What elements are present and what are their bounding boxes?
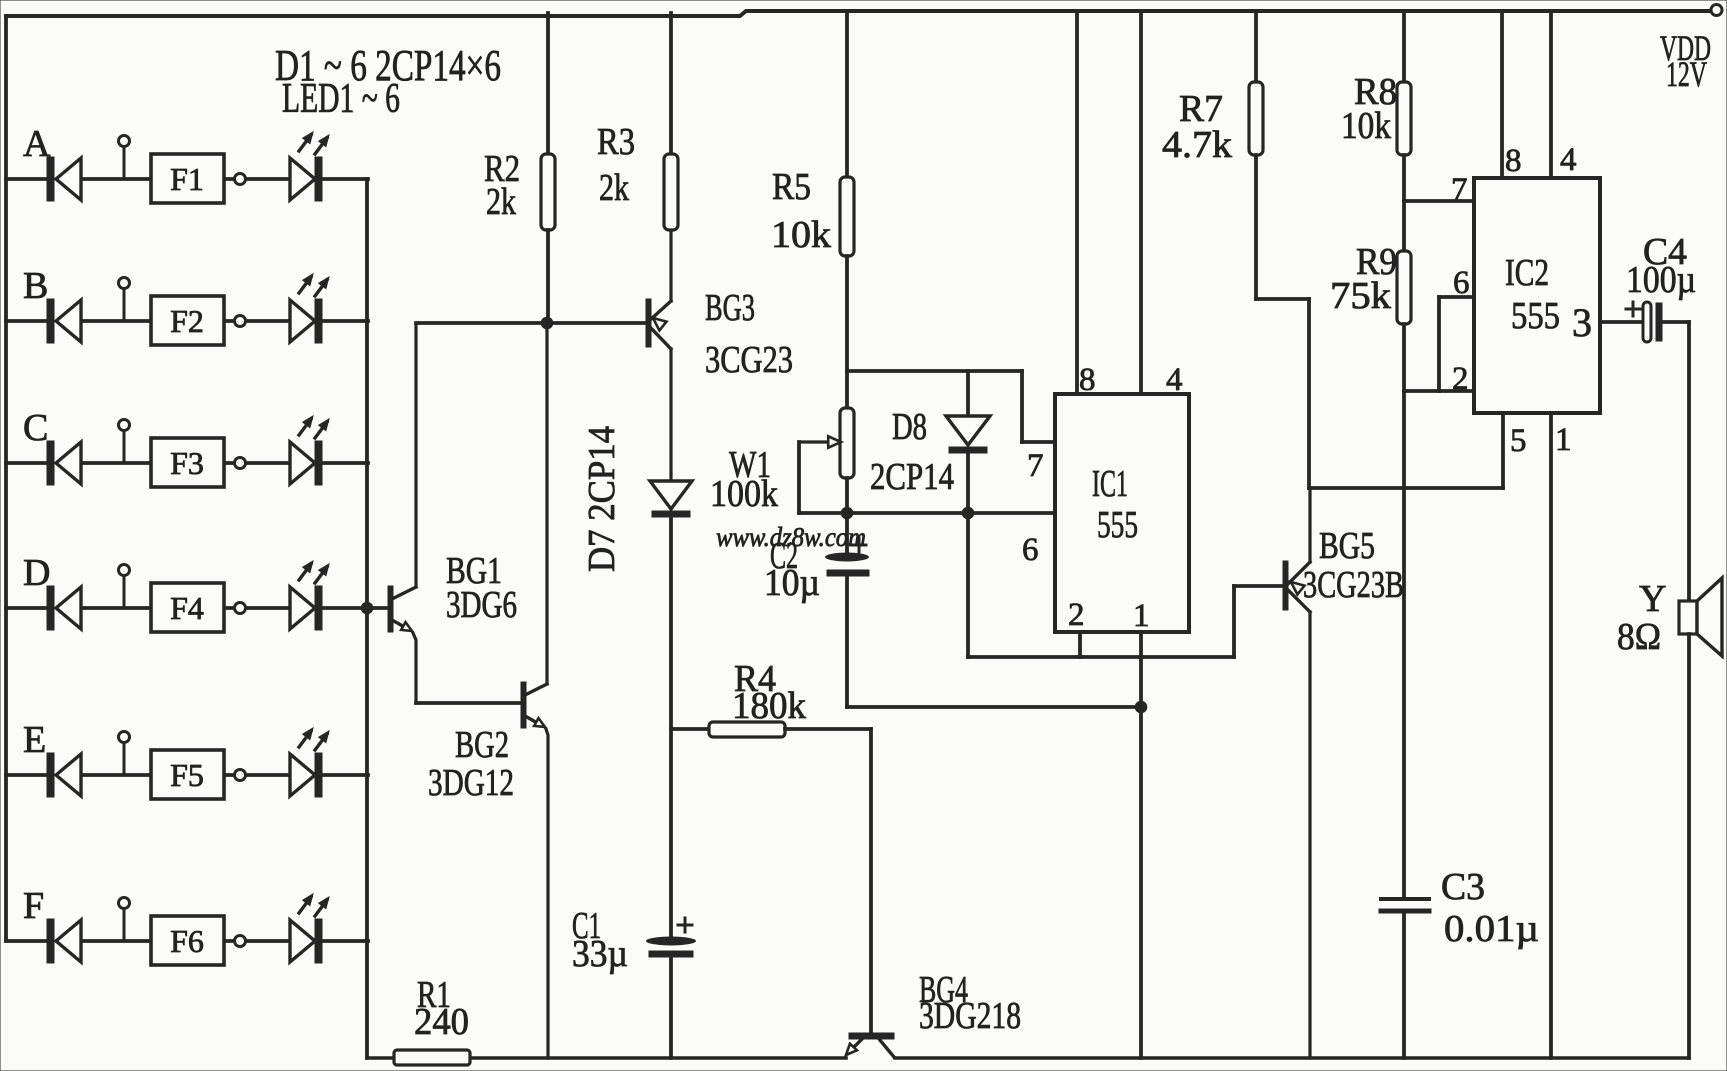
svg-text:3CG23B: 3CG23B (1303, 564, 1404, 606)
node B (row label) (23, 265, 48, 307)
svg-text:6: 6 (1022, 532, 1039, 568)
node E (row label) (23, 719, 46, 761)
svg-text:C: C (23, 407, 48, 449)
diode D8 (2CP14) (946, 371, 990, 513)
svg-text:BG3: BG3 (705, 287, 755, 329)
resistor R2 (2k) (541, 13, 555, 323)
svg-text:B: B (23, 265, 48, 307)
transistor BG2 (3DG12, NPN) (521, 323, 548, 1058)
svg-text:7: 7 (1451, 172, 1468, 208)
box F6 (sensor unit) (151, 916, 224, 965)
input terminal row E (119, 732, 130, 776)
speaker Y (8 ohm) (1679, 578, 1722, 1058)
wire: LED output bus (vertical, collects rows A-F) (365, 179, 369, 1058)
LED5 row E (290, 728, 329, 797)
svg-text:D: D (23, 552, 50, 594)
wire: modulation line to IC2 pin 5 (1309, 413, 1503, 488)
LED6 row F (290, 894, 329, 963)
svg-text:1: 1 (1133, 598, 1150, 634)
LED1 row A (290, 132, 329, 201)
node F (row label) (23, 885, 44, 927)
junction: D8 cathode node (962, 507, 974, 519)
diode D6 (2CP14) row F (47, 919, 81, 963)
box F3 (sensor unit) (151, 438, 224, 487)
op-amp/timer IC1 (555) body (1055, 394, 1189, 632)
svg-text:75k: 75k (1330, 275, 1391, 317)
wire row F (6, 939, 368, 943)
label R7 4.7k (1162, 88, 1232, 166)
transistor BG3 (3CG23, PNP) (646, 230, 671, 481)
wire: IC2 pin 3 output (1600, 320, 1643, 324)
label C1 33µ (572, 905, 628, 975)
pin label 5 (IC2) (1510, 423, 1527, 459)
wire: bottom rail (right section) (895, 1056, 1689, 1060)
label: LED1~6 (282, 76, 400, 122)
resistor R9 (75k) (1397, 251, 1411, 898)
node: VDD terminal circle (top right) (1711, 5, 1722, 16)
wire: W1 wiper / C2 / D8 cathode to IC1 pin 6 (799, 511, 1055, 515)
label: D1~6 2CP14×6 (275, 41, 501, 90)
svg-text:2k: 2k (599, 167, 629, 209)
svg-text:E: E (23, 719, 46, 761)
pin label 3 (IC2) (1572, 300, 1592, 345)
svg-text:4: 4 (1166, 362, 1183, 398)
input terminal row B (119, 278, 130, 322)
label BG4 3DG218 (919, 969, 1021, 1037)
pin label 2 (IC2) (1452, 361, 1469, 397)
svg-text:www.dz8w.com: www.dz8w.com (716, 522, 866, 552)
svg-text:6: 6 (1453, 265, 1470, 301)
svg-text:4: 4 (1560, 142, 1577, 178)
resistor R4 (180k) (709, 722, 785, 737)
capacitor C2 (10µ, electrolytic) (825, 538, 1141, 707)
diode D5 (2CP14) row E (47, 753, 81, 797)
svg-text:F2: F2 (170, 303, 204, 339)
wire: R5/W1 node to D8 anode and IC1 pin 7 (847, 371, 1055, 442)
svg-text:BG2: BG2 (455, 724, 509, 766)
wire row D (6, 606, 368, 610)
transistor BG4 (3DG218, NPN) (846, 1033, 894, 1057)
box F2 (sensor unit) (151, 296, 224, 345)
svg-text:10k: 10k (771, 214, 831, 256)
wire: IC1 pin 1 to ground rail (1139, 632, 1143, 1058)
wire: R8/R9 node to IC2 pin 7 (1404, 199, 1474, 203)
wire row A (6, 177, 368, 181)
pin label 6 (IC1) (1022, 532, 1039, 568)
svg-text:D7 2CP14: D7 2CP14 (581, 426, 623, 572)
wire row E (6, 773, 368, 777)
pin label 7 (IC1) (1027, 448, 1044, 484)
svg-text:12V: 12V (1666, 54, 1707, 94)
svg-text:8: 8 (1505, 143, 1522, 179)
transistor BG1 (3DG6, NPN) (388, 324, 416, 703)
node D (row label) (23, 552, 50, 594)
node: output bubble of F3 (235, 458, 246, 469)
svg-text:3DG12: 3DG12 (428, 762, 514, 804)
wire: IC2 pin 4 to VDD (1549, 11, 1553, 178)
pin label 7 (IC2) (1451, 172, 1468, 208)
svg-text:2: 2 (1068, 597, 1085, 633)
node: output bubble of F5 (235, 770, 246, 781)
wire: IC2 pin 8 to VDD (1500, 11, 1504, 178)
label R1 240 (414, 974, 469, 1043)
node: output bubble of F1 (235, 174, 246, 185)
svg-text:4.7k: 4.7k (1162, 124, 1232, 166)
svg-text:2CP14: 2CP14 (870, 456, 954, 498)
pin label 4 (IC1) (1166, 362, 1183, 398)
label C3 0.01µ (1441, 866, 1539, 950)
resistor R1 (240) (394, 1050, 470, 1065)
label BG1 3DG6 (446, 550, 517, 626)
wire: D7/C1 node to R4 (671, 727, 709, 731)
potentiometer W1 (100k) (799, 408, 854, 513)
label R5 10k (771, 166, 831, 256)
svg-text:BG5: BG5 (1319, 525, 1375, 567)
input terminal row A (119, 136, 130, 180)
node: output bubble of F4 (235, 603, 246, 614)
capacitor C4 (100µ, electrolytic, output coupling) (1626, 302, 1689, 601)
svg-text:7: 7 (1027, 448, 1044, 484)
svg-text:240: 240 (414, 1001, 469, 1043)
wire: BG1 emitter to BG2 base (416, 701, 521, 705)
input terminal row F (119, 898, 130, 942)
svg-text:F5: F5 (170, 757, 204, 793)
wire: BG1 collector to BG3 base (416, 321, 646, 325)
svg-text:2: 2 (1452, 361, 1469, 397)
resistor R3 (2k) (664, 13, 678, 230)
svg-text:C3: C3 (1441, 866, 1485, 908)
wire: IC1 pin 8 to VDD (1075, 13, 1079, 394)
svg-text:1: 1 (1555, 422, 1572, 458)
svg-text:F: F (23, 885, 44, 927)
resistor R8 (10k) (1397, 11, 1411, 251)
label R4 180k (732, 658, 806, 727)
junction: W1/C2 node (841, 507, 853, 519)
net label VDD 12V (1660, 28, 1711, 94)
input terminal row D (119, 565, 130, 609)
wire row B (6, 319, 368, 323)
resistor R5 (10k) (840, 13, 854, 408)
diode D2 (2CP14) row B (47, 299, 81, 343)
label D8 2CP14 (870, 406, 954, 498)
diode D1 (2CP14) row A (47, 157, 81, 201)
LED2 row B (290, 274, 329, 343)
wire: IC1 pin 4 to VDD (1139, 13, 1143, 394)
wire: left input bus (rows A-F) (4, 16, 8, 941)
label W1 100k (710, 444, 778, 515)
svg-text:180k: 180k (732, 685, 806, 727)
node C (row label) (23, 407, 48, 449)
junction: C2 / IC1 pin1 column (1135, 701, 1147, 713)
LED3 row C (290, 416, 329, 485)
svg-text:8Ω: 8Ω (1617, 616, 1661, 658)
svg-text:100k: 100k (710, 473, 778, 515)
node: output bubble of F6 (235, 936, 246, 947)
diode D7 (2CP14) (650, 481, 692, 938)
label R3 2k (597, 121, 635, 209)
pin label 4 (IC2) (1560, 142, 1577, 178)
svg-text:3DG218: 3DG218 (919, 995, 1021, 1037)
timer IC2 (555) body (1474, 178, 1600, 413)
svg-text:IC2: IC2 (1505, 252, 1549, 294)
svg-text:D8: D8 (892, 406, 927, 448)
diode D4 (2CP14) row D (47, 586, 81, 630)
wire: D8 node down to IC1 pin 2 wire (966, 513, 970, 657)
pin label 6 (IC2) (1453, 265, 1470, 301)
svg-text:100µ: 100µ (1626, 259, 1696, 301)
svg-text:3DG6: 3DG6 (446, 584, 517, 626)
svg-text:R5: R5 (772, 166, 811, 208)
svg-text:F6: F6 (170, 923, 204, 959)
label R9 75k (1330, 241, 1397, 317)
svg-text:555: 555 (1097, 504, 1138, 546)
pin label 8 (IC1) (1079, 362, 1096, 398)
box F4 (sensor unit) (151, 583, 224, 632)
diode D3 (2CP14) row C (47, 441, 81, 485)
wire: pin2/D8 node to BG5 base (968, 586, 1283, 657)
box F1 (sensor unit) (151, 154, 224, 203)
pin label 1 (IC2) (1555, 422, 1572, 458)
wire: W1 bottom to junction (845, 478, 849, 554)
pin label 1 (IC1) (1133, 598, 1150, 634)
svg-text:IC1: IC1 (1092, 463, 1128, 505)
resistor R7 (4.7k) (1249, 11, 1309, 488)
label C2 10µ (764, 535, 820, 604)
junction: R2 / BG3 base / BG2 collector (541, 317, 553, 329)
label BG5 3CG23B (1303, 525, 1404, 606)
svg-text:F3: F3 (170, 445, 204, 481)
pin label 8 (IC2) (1505, 143, 1522, 179)
wire: R9 bottom to IC2 pins 2 and 6 (1404, 297, 1474, 391)
svg-text:LED1 ~ 6: LED1 ~ 6 (282, 76, 400, 122)
pin label 2 (IC1) (1068, 597, 1085, 633)
svg-text:5: 5 (1510, 423, 1527, 459)
label BG3 3CG23 (705, 287, 793, 381)
junction: row D / BG1 base (361, 602, 373, 614)
label Y 8Ω (1617, 578, 1666, 658)
svg-text:8: 8 (1079, 362, 1096, 398)
node A (row label) (23, 123, 51, 165)
watermark www.dz8w.com (716, 522, 866, 552)
svg-text:F1: F1 (170, 161, 204, 197)
wire: bottom rail (left section) (367, 1056, 846, 1060)
box F5 (sensor unit) (151, 750, 224, 799)
svg-text:10µ: 10µ (764, 562, 820, 604)
label BG2 3DG12 (428, 724, 514, 804)
svg-text:3: 3 (1572, 300, 1592, 345)
input terminal row C (119, 420, 130, 464)
label R8 10k (1341, 71, 1397, 147)
svg-text:555: 555 (1511, 295, 1560, 337)
node: output bubble of F2 (235, 316, 246, 327)
svg-text:0.01µ: 0.01µ (1444, 908, 1539, 950)
svg-text:33µ: 33µ (572, 933, 628, 975)
capacitor C3 (0.01µ) (1381, 899, 1429, 1058)
wire: BG1 base (367, 606, 388, 610)
svg-text:F4: F4 (170, 590, 204, 626)
svg-text:Y: Y (1639, 578, 1666, 620)
wire: R4 to BG4 base (785, 729, 871, 1033)
svg-text:3CG23: 3CG23 (705, 339, 793, 381)
label D7 2CP14 (rotated) (581, 426, 623, 572)
transistor BG5 (3CG23B, PNP) (1283, 488, 1310, 1058)
label C4 100µ (1626, 231, 1696, 301)
svg-text:2k: 2k (486, 181, 516, 223)
svg-text:R3: R3 (597, 121, 635, 163)
svg-text:10k: 10k (1341, 105, 1391, 147)
wire: IC2 pin 1 to ground rail (1549, 413, 1553, 1058)
wire: VDD top power rail (6, 11, 1711, 16)
wire: IC1 pin 2 (1078, 632, 1082, 657)
LED4 row D (290, 561, 329, 630)
label R2 2k (484, 148, 520, 223)
wire row C (6, 461, 368, 465)
capacitor C1 (33µ, electrolytic) (646, 918, 696, 1058)
